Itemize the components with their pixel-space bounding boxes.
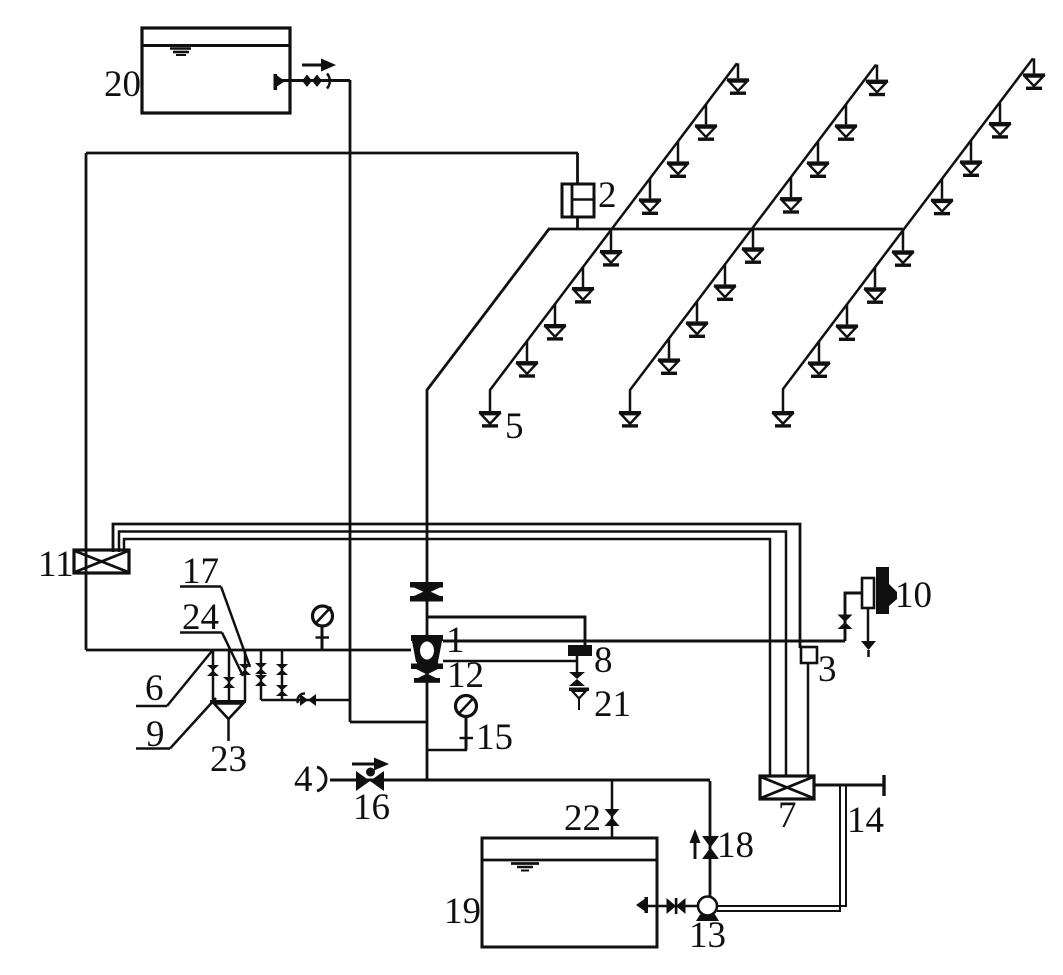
wire: test connection line from valve 7: [814, 784, 883, 787]
svg-text:3: 3: [818, 649, 837, 690]
drain stub valve (second): [223, 650, 235, 701]
test valve below flow indicator: [569, 656, 585, 686]
svg-text:23: 23: [210, 739, 247, 780]
sprinkler head: [742, 228, 764, 264]
check valve 18 with flow arrow: [690, 829, 720, 859]
capped end: [882, 775, 885, 796]
label 6 with leader: [136, 651, 212, 709]
svg-text:14: 14: [847, 800, 884, 841]
svg-text:8: 8: [594, 640, 613, 681]
label 24 with leader: [180, 597, 243, 676]
wire: diagonal feed to riser: [427, 229, 549, 583]
wire: sprinkler branch C: [783, 58, 1033, 411]
wire: tank downpipe x=350: [349, 80, 352, 722]
pressure gauge connection box 3: [801, 647, 817, 663]
svg-text:4: 4: [294, 759, 313, 800]
flow arrow right: [302, 59, 336, 72]
wire: line from alarm valve to flow indicator 8: [443, 660, 577, 663]
sprinkler head: [667, 141, 689, 178]
svg-text:13: 13: [689, 915, 726, 956]
water flow indicator 2: [562, 153, 594, 229]
check valve 16: [356, 768, 384, 792]
wire: pipe from box 3 down to valve 7: [807, 663, 810, 776]
svg-text:20: 20: [104, 64, 141, 105]
svg-text:19: 19: [444, 891, 481, 932]
wire: tank 19 fill pipe: [611, 780, 614, 880]
sprinkler head: [639, 178, 661, 215]
wire: inner bundle line: [124, 539, 770, 776]
signal valve above alarm valve: [410, 582, 443, 602]
svg-text:2: 2: [598, 175, 617, 216]
drain stub valves (fifth, double): [276, 650, 288, 700]
svg-text:7: 7: [778, 795, 797, 836]
sprinkler head: [960, 140, 982, 177]
wire: alarm riser lower segment: [426, 660, 429, 780]
sprinkler head: [808, 341, 830, 378]
sprinkler head: [807, 141, 829, 178]
drain stub valves (fourth, double): [255, 650, 267, 700]
stop valve on tank 20 outlet: [274, 74, 351, 91]
suction gate valve: [667, 898, 686, 914]
sprinkler head: [892, 230, 914, 267]
fire pump 13: [696, 897, 719, 922]
svg-text:10: 10: [895, 575, 932, 616]
wire: horizontal jog to alarm riser: [350, 721, 428, 724]
sprinkler head: [686, 301, 708, 338]
wire: pump suction line: [648, 905, 698, 908]
wire: sprinkler branch A: [490, 63, 737, 411]
sprinkler head: [864, 267, 886, 304]
alarm check valve 1: [411, 635, 443, 666]
valve 12: [411, 664, 443, 683]
svg-text:16: 16: [353, 787, 390, 828]
flow arrow at check valve 16: [352, 758, 389, 771]
sprinkler head: [836, 304, 858, 341]
sprinkler head (branch C bottom end): [772, 411, 794, 428]
label 17 with leader: [180, 551, 250, 667]
wire: left main horizontal y=650: [86, 649, 411, 652]
pressure gauge on left main: [313, 606, 333, 650]
wire: bypass to flow indicator: [427, 617, 585, 646]
foot connection in tank: [636, 897, 648, 913]
drain stub valve (third): [239, 650, 251, 701]
wire: main distribution line to the right: [443, 640, 845, 643]
sprinkler head (branch C top end): [1023, 58, 1045, 90]
valve 7 (signal butterfly valve): [760, 776, 814, 799]
sprinkler head: [572, 267, 594, 304]
sprinkler head: [714, 264, 736, 301]
wire: left vertical x=86: [85, 153, 88, 650]
wire: drain line to downpipe: [261, 699, 350, 702]
sprinkler head (branch A bottom end): [479, 411, 501, 428]
sprinkler head: [989, 102, 1011, 139]
svg-text:22: 22: [564, 798, 601, 839]
sprinkler head (branch B bottom end): [619, 411, 641, 428]
wire: sprinkler feed main: [548, 228, 903, 231]
sprinkler head: [544, 304, 566, 341]
svg-text:6: 6: [145, 668, 164, 709]
valve 22: [605, 809, 620, 826]
pressure switch 10: [861, 567, 897, 657]
sprinkler head: [931, 179, 953, 216]
pressure gauge 15: [428, 696, 477, 751]
sprinkler head: [695, 104, 717, 141]
drain stub valve (first): [207, 650, 219, 701]
sprinkler head: [780, 177, 802, 214]
tank 19: [482, 838, 657, 947]
svg-text:11: 11: [38, 544, 74, 585]
wire: top horizontal line y=153: [86, 152, 578, 155]
wire: middle bundle line: [119, 532, 786, 777]
sprinkler head: [600, 230, 622, 267]
sprinkler head (branch B top end): [866, 65, 888, 97]
svg-text:15: 15: [476, 717, 513, 758]
wire: sprinkler branch B: [630, 65, 876, 411]
wire: pump discharge header y=780: [330, 779, 710, 782]
label 9 with leader: [136, 698, 216, 755]
sprinkler head (branch A top end): [727, 63, 749, 95]
flow indicator 8: [568, 645, 592, 656]
tank 20: [142, 28, 290, 113]
wire: pump discharge riser: [709, 781, 712, 897]
sprinkler head: [658, 338, 680, 375]
wire: alarm riser upper segment: [426, 600, 429, 641]
wire: outer bundle line: [113, 524, 800, 648]
wire: test pipe 14 (double line): [717, 785, 846, 911]
svg-text:18: 18: [717, 825, 754, 866]
gate valve on pressure switch riser: [838, 615, 853, 630]
drain globe valve: [298, 693, 316, 706]
siamese connection 4: [294, 759, 326, 800]
open test nozzle 21: [569, 688, 589, 711]
svg-text:5: 5: [505, 406, 524, 447]
wire: riser to pressure switch: [845, 593, 862, 641]
svg-text:21: 21: [594, 684, 631, 725]
sprinkler head: [516, 341, 538, 378]
valve 11 (signal butterfly valve): [74, 550, 129, 573]
drain funnel 23: [210, 702, 246, 742]
sprinkler head: [835, 104, 857, 141]
